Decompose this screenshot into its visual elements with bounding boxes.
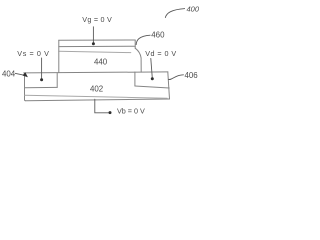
svg-text:402: 402 (90, 84, 103, 93)
gate 460 top edge (59, 39, 135, 41)
body 440 right edge curve (135, 48, 141, 72)
substrate 402 right edge (168, 72, 170, 99)
leader to label 404 (15, 73, 24, 75)
Vg contact dot (92, 42, 95, 45)
Vd terminal wire (151, 59, 153, 79)
svg-text:Vd = 0 V: Vd = 0 V (145, 49, 176, 58)
Vg terminal wire (92, 27, 94, 43)
svg-text:Vs = 0 V: Vs = 0 V (17, 49, 49, 58)
svg-text:Vb = 0 V: Vb = 0 V (117, 106, 145, 115)
Vs contact dot (40, 78, 43, 81)
drain region 406 left edge (134, 72, 136, 86)
gate/body left edge (58, 40, 60, 72)
Vd contact dot (151, 77, 154, 80)
source region 404 bottom edge (25, 86, 58, 88)
source region 404 right edge (56, 73, 58, 87)
Vb contact dot (109, 111, 112, 114)
gate oxide faint line (59, 51, 131, 52)
leader to label 400 (165, 9, 185, 18)
arrowhead of 404 leader (23, 72, 28, 77)
svg-text:440: 440 (94, 57, 108, 66)
Vb terminal wire (95, 99, 109, 113)
svg-text:406: 406 (185, 71, 199, 80)
svg-text:404: 404 (2, 70, 16, 79)
substrate 402 left edge (25, 73, 26, 101)
svg-text:Vg = 0 V: Vg = 0 V (82, 15, 112, 24)
leader to label 460 (136, 35, 150, 45)
svg-text:400: 400 (187, 4, 200, 13)
substrate 402 top line (24, 72, 168, 73)
substrate 402 bottom edge (26, 99, 170, 101)
svg-text:460: 460 (151, 31, 165, 40)
gate right edge (134, 40, 136, 48)
drain region 406 bottom edge (135, 86, 169, 88)
substrate inner faint line (25, 95, 168, 98)
gate 460 mid line (59, 45, 135, 47)
leader to label 406 (168, 75, 184, 80)
Vs terminal wire (41, 58, 43, 79)
